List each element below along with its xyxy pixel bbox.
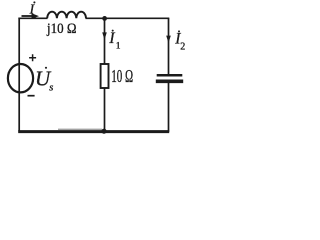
- resistor 10 ohm: [101, 64, 109, 88]
- current arrow I (top): [22, 15, 33, 17]
- svg-text:j10 Ω: j10 Ω: [46, 21, 77, 37]
- wire : right vertical upper: [168, 18, 170, 74]
- wire : middle vertical upper: [104, 18, 106, 65]
- polarity plus: [29, 54, 36, 61]
- current arrow I2: [166, 36, 171, 43]
- capacitor top plate: [157, 74, 183, 77]
- wire : middle vertical lower: [104, 88, 106, 132]
- voltage source Us (circle): [8, 64, 33, 92]
- svg-text:s: s: [49, 83, 53, 94]
- polarity minus: [28, 95, 35, 97]
- svg-text:I: I: [108, 30, 115, 47]
- svg-text:10 Ω: 10 Ω: [111, 66, 133, 86]
- inductor j10 (coil): [47, 12, 86, 19]
- current arrow I1: [102, 32, 107, 39]
- node : top junction: [102, 16, 107, 21]
- wire : right vertical lower: [168, 83, 170, 132]
- svg-text:2: 2: [180, 41, 185, 52]
- svg-text:1: 1: [116, 42, 121, 52]
- wire : top right segment: [86, 17, 170, 19]
- wire : bottom scan-double artifact: [58, 128, 102, 130]
- wire : top left segment: [18, 17, 47, 19]
- wire : left vertical through source: [18, 18, 20, 132]
- capacitor bottom plate: [156, 80, 183, 84]
- node : bottom junction: [101, 129, 106, 134]
- wire : bottom horizontal: [18, 130, 169, 133]
